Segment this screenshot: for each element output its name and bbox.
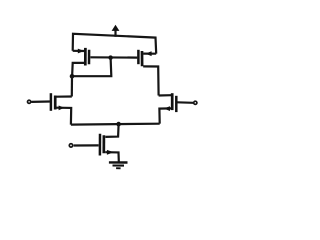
nmos M2 gate lead <box>177 101 193 104</box>
nmos M2 source arrow (points out) <box>164 106 170 111</box>
nmos M1 gate lead <box>31 100 50 103</box>
nmos M2 channel bar <box>171 93 174 110</box>
nmos M1 input terminal circle (left) <box>28 100 31 103</box>
pmos M4 source lead <box>143 52 156 54</box>
ground bar 3 <box>116 167 121 169</box>
nmos M5 gate bar <box>99 134 102 156</box>
nmos M1 channel bar <box>54 96 57 110</box>
nmos M5 gate lead <box>74 144 99 146</box>
nmos M5 drain lead up to tail node <box>105 124 118 137</box>
pmos M3 source arrow (points into channel) <box>78 49 85 54</box>
node A junction dot (gate link tap) <box>108 55 113 60</box>
nmos M5 channel bar <box>102 135 105 153</box>
nmos M5 input terminal circle (bias) <box>69 144 72 147</box>
nmos M2 drain lead <box>159 94 172 97</box>
pmos M3 gate bar <box>88 50 91 64</box>
pmos M4 channel bar <box>141 51 144 66</box>
pmos M3 source lead <box>73 50 85 52</box>
pmos M4 gate bar <box>137 50 140 64</box>
gate link wire M3-M4 <box>90 56 137 58</box>
wire node B down to M1 drain <box>71 76 73 96</box>
node B junction dot (M3 drain / M1 drain) <box>70 74 75 79</box>
VDD supply arrow <box>112 25 120 37</box>
ground bar 2 <box>113 164 125 166</box>
ground bar 1 <box>109 161 128 164</box>
pmos M3 channel bar <box>84 48 87 66</box>
nmos M2 gate bar <box>175 96 178 112</box>
nmos M2 source lead <box>159 108 171 123</box>
nmos M1 source lead <box>56 108 71 125</box>
input terminal circle (right) <box>194 101 197 104</box>
pmos M4 drain lead down to output node <box>143 66 158 95</box>
VDD rail loop <box>73 34 157 54</box>
nmos M1 drain lead <box>56 95 71 97</box>
nmos M5 source lead <box>105 152 119 161</box>
nmos M1 gate bar <box>50 93 53 111</box>
wire node A down to diode node <box>72 58 111 77</box>
tail node wire <box>71 123 160 126</box>
pmos M4 source arrow (points into channel) <box>145 51 151 56</box>
node C junction dot (tail) <box>116 122 121 127</box>
nmos M5 source arrow (points out) <box>107 150 114 155</box>
nmos M1 source arrow (points out) <box>59 106 65 111</box>
pmos M3 drain lead <box>72 63 84 76</box>
